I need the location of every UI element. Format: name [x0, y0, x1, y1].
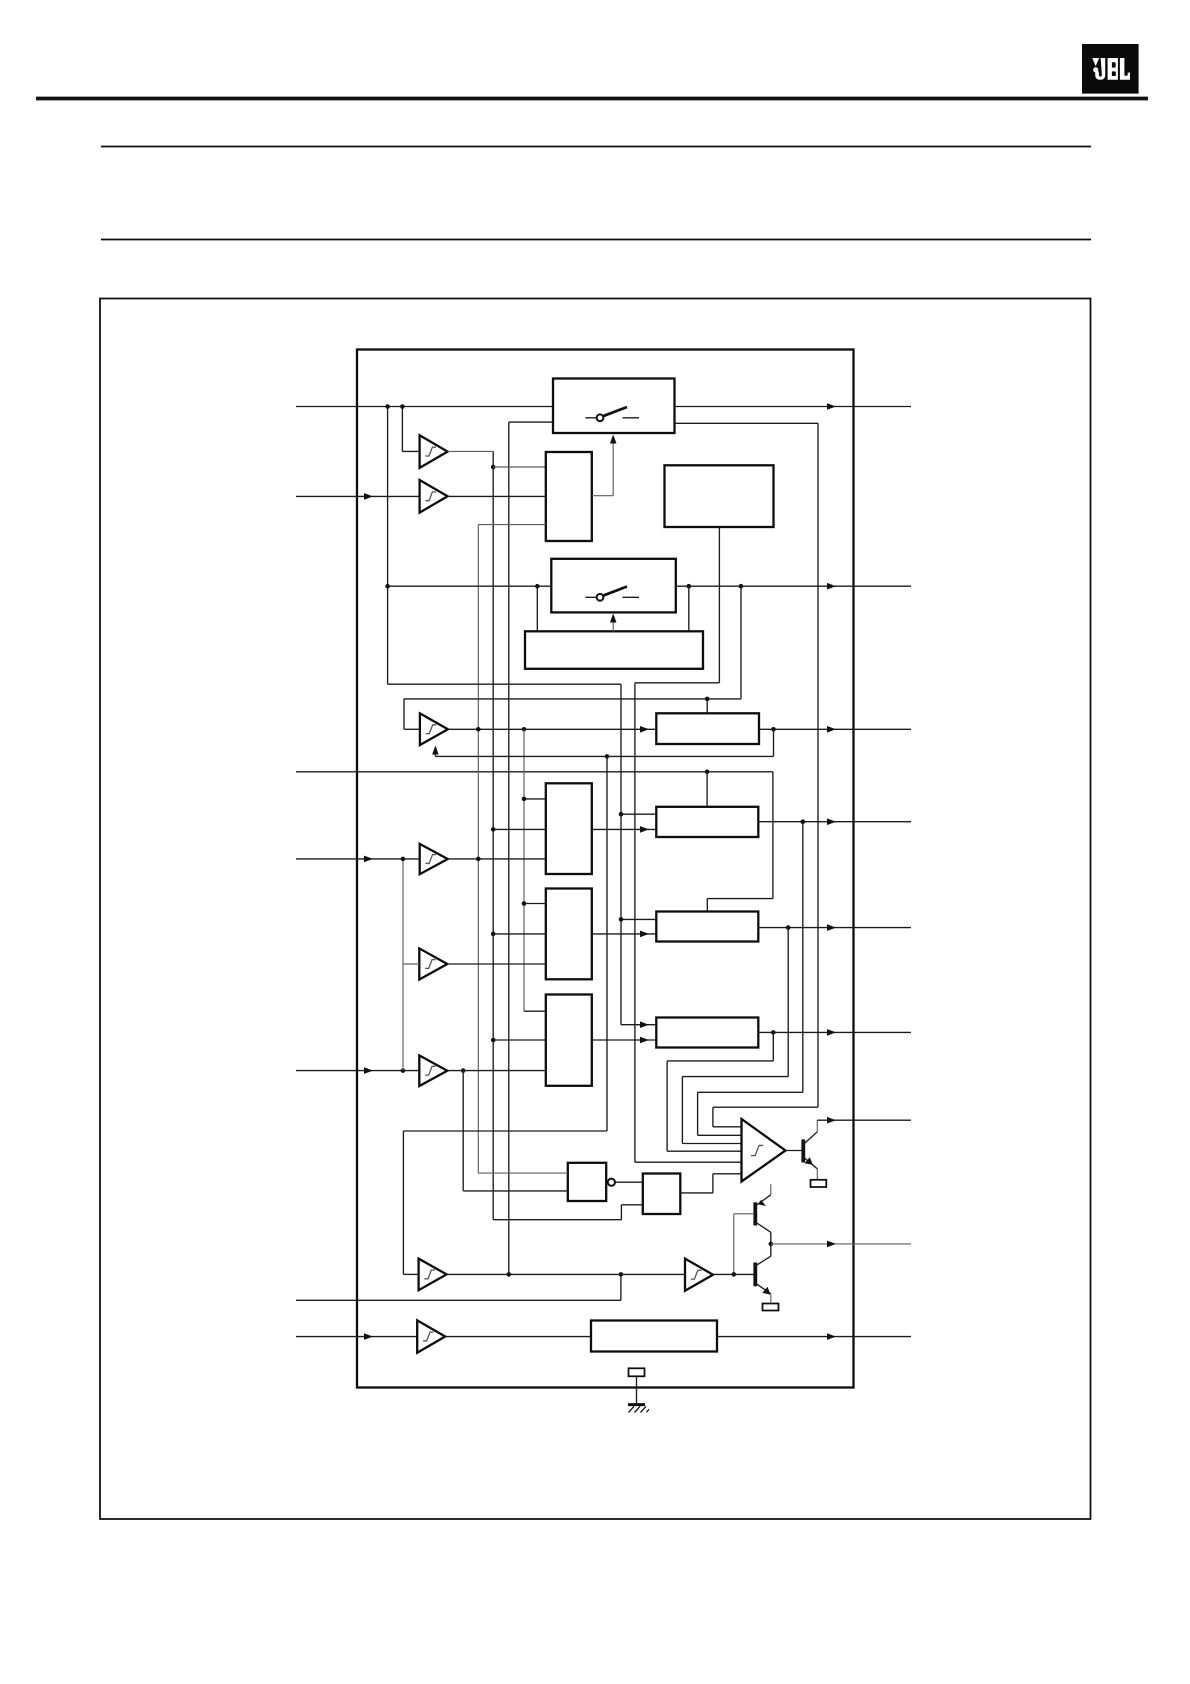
wire U8 output row — [447, 1273, 685, 1275]
wire Q3 emitter drop — [770, 1294, 772, 1304]
wire U12 out — [445, 1336, 591, 1338]
wire B1 out — [592, 933, 657, 935]
wire pin6 riser — [620, 1274, 622, 1300]
wire stair1 — [667, 1060, 773, 1062]
buffer U12 — [417, 1320, 445, 1352]
wire Q1 emitter drop — [816, 1169, 818, 1180]
buffer U10 — [685, 1259, 713, 1291]
wire R2 in — [621, 918, 656, 920]
gate G1 — [568, 1163, 606, 1201]
wire U6 in elbow — [403, 963, 419, 965]
wire G1 in1 — [478, 1172, 568, 1174]
wire input pin5 row — [296, 1070, 419, 1072]
buffer U8 — [419, 1259, 447, 1291]
wire U4 in elbow — [403, 699, 405, 729]
bus U4out — [523, 729, 525, 1011]
switch S1 symbol — [585, 407, 639, 421]
buffer U7 — [419, 1055, 447, 1086]
node R1 out — [801, 819, 806, 824]
block K1 — [656, 713, 759, 744]
buffer U5 — [420, 844, 448, 874]
resistor RE1 — [811, 1180, 827, 1187]
wire pin1 bus elbow — [388, 683, 621, 685]
transistor Q3 — [755, 1256, 771, 1294]
wire fb-mid elbow — [403, 1130, 607, 1132]
wire ctl drop left — [536, 586, 538, 631]
wire U2 output — [448, 450, 494, 452]
node U4out tap1 — [476, 727, 481, 732]
wire input pin3 row — [296, 771, 773, 773]
wire U10 out — [713, 1273, 754, 1275]
wire G1 in2 — [463, 1190, 568, 1192]
buffer U3 — [420, 480, 448, 513]
block A1 — [546, 783, 592, 874]
node S2-in tap — [385, 584, 390, 589]
wire U8 fb drop — [402, 1131, 404, 1274]
wire input pin7 row — [296, 1336, 417, 1338]
node C1 in2 — [491, 1038, 496, 1043]
buffer U2 — [420, 435, 448, 468]
wire W1 control to S2 — [612, 623, 614, 632]
wire R1 output row — [758, 821, 911, 823]
node pin6-join — [619, 1272, 624, 1277]
wire A1 in1 — [524, 798, 546, 800]
wire S2 fb drop — [740, 586, 742, 699]
bus control S1 — [508, 422, 510, 1274]
node pin5-branch — [401, 1068, 406, 1073]
wire U3 output — [448, 495, 546, 497]
gate G1 bubble — [608, 1179, 615, 1186]
wire R1 top stub — [706, 772, 708, 807]
node QQ out — [769, 1242, 774, 1247]
node Q3 base tap — [732, 1272, 737, 1277]
node R2 in — [619, 917, 624, 922]
wire long right bus — [817, 423, 819, 1107]
wire G2 in2 step — [493, 1219, 621, 1221]
wire T1 in1 — [493, 466, 546, 468]
block W2 — [591, 1321, 717, 1352]
node pin1-b — [400, 404, 405, 409]
bus U7out — [462, 1071, 464, 1191]
bus U2 out — [492, 451, 494, 1219]
wire stair3 — [698, 1091, 803, 1093]
wire stair4 — [713, 1106, 818, 1108]
bus R1out to comparator — [802, 822, 804, 1093]
block R3 — [656, 1018, 758, 1048]
wire R2 top stub — [706, 899, 708, 912]
wire R3 in arrow — [621, 1024, 656, 1026]
wire U2 input elbow — [401, 407, 403, 452]
wire B1 in1 — [524, 903, 546, 905]
wire input pin2 row — [296, 495, 420, 497]
wire C1 in2 — [493, 1039, 546, 1041]
figure frame — [100, 299, 1091, 1520]
analog switch S2 — [551, 559, 676, 613]
transistor Q2 — [755, 1195, 771, 1233]
wire stair5 ref — [635, 1161, 742, 1163]
wire input pin4 row — [296, 858, 420, 860]
title rule upper — [101, 146, 1091, 148]
wire C1 in1 — [524, 1010, 546, 1012]
node U5 out tap — [476, 857, 481, 862]
node S2 out a — [687, 584, 692, 589]
wire gnd drop — [636, 1376, 638, 1404]
wire K1 fb drop — [773, 729, 775, 756]
wire Q1 collector riser — [816, 1120, 818, 1132]
wire S1 aux out to comparator bus — [675, 422, 819, 424]
bus R3out to comparator — [772, 1032, 774, 1061]
wire ctl drop right — [688, 586, 690, 631]
wire Q2 emitter stub — [770, 1184, 772, 1195]
wire G1 out — [615, 1181, 643, 1183]
wire S1 output row — [675, 406, 912, 408]
wire Q2 base — [734, 1213, 755, 1215]
JBL logo — [1082, 44, 1139, 94]
wire R3 output row — [758, 1031, 911, 1033]
node U4out tap2 — [522, 727, 527, 732]
wire Q2 base riser — [733, 1214, 735, 1275]
bus from pin1 — [387, 407, 389, 685]
pin P-gnd — [629, 1368, 645, 1376]
node bus-s1 bottom — [507, 1272, 512, 1277]
ground — [628, 1405, 649, 1413]
wire K top stub — [706, 699, 708, 713]
node pin3-branch — [705, 770, 710, 775]
wire QQ output row — [771, 1243, 911, 1245]
block R2 — [656, 912, 758, 942]
buffer U6 — [419, 948, 447, 979]
node pin5-tap — [461, 1068, 466, 1073]
block REF1 — [665, 465, 774, 527]
wire stair2 — [682, 1076, 788, 1078]
wire T1 out to S1 control — [592, 495, 613, 497]
wire Q2-Q3 link — [770, 1232, 772, 1256]
wire S1 control stub — [509, 421, 553, 423]
wire input pin6 row — [296, 1299, 621, 1301]
wire pin3 drop — [772, 772, 774, 899]
IC outline U1 — [357, 350, 854, 1388]
bus fb-mid — [606, 756, 608, 1131]
wire T1 in3 — [478, 524, 546, 526]
wire U4 refresh arrow — [434, 755, 436, 757]
block T1 — [546, 452, 592, 541]
wire K1 output row — [759, 728, 911, 730]
bus R2out to comparator — [787, 928, 789, 1077]
comparator U9 — [742, 1119, 786, 1182]
node S2 out b — [739, 584, 744, 589]
block C1 — [546, 995, 592, 1086]
node R2 out — [786, 925, 791, 930]
node R1 in — [619, 812, 624, 817]
switch S2 symbol — [585, 587, 639, 601]
gate G2 — [643, 1174, 681, 1215]
wire G2 out step — [680, 1192, 713, 1194]
wire REF1 elbow — [635, 682, 720, 684]
node A1 in2 — [491, 827, 496, 832]
wire Q1 output row — [817, 1119, 911, 1121]
wire S2 output row — [676, 585, 911, 587]
wire U5 output — [448, 858, 546, 860]
resistor RE2 — [763, 1304, 779, 1311]
node K1 out — [771, 727, 776, 732]
node B1 in1 — [522, 901, 527, 906]
node fb-bus tap — [605, 754, 610, 759]
title rule lower — [101, 239, 1091, 241]
wire R1 in — [621, 813, 656, 815]
node K top tap — [705, 697, 710, 702]
wire C1 out — [592, 1039, 657, 1041]
wire K1 fb row — [435, 755, 773, 757]
node A1 in1 — [522, 797, 527, 802]
bus REF1 to comparator — [634, 683, 636, 1162]
bus to R-array — [620, 684, 622, 1024]
wire U4 fb top — [404, 698, 741, 700]
wire input pin1 row — [296, 406, 553, 408]
wire pin3 elbow — [707, 898, 773, 900]
node pin1-a — [385, 404, 390, 409]
wire S2 input row — [388, 585, 552, 587]
buffer U4 — [420, 713, 448, 745]
wire REF1 down — [718, 527, 720, 683]
wire U9 out — [786, 1150, 802, 1152]
transistor Q1 — [803, 1132, 817, 1169]
node R3 out — [771, 1030, 776, 1035]
wire U4 output row — [448, 728, 656, 730]
wire R2 output row — [758, 927, 911, 929]
wire U7 output — [448, 1070, 546, 1072]
wire B1 in2 — [493, 933, 546, 935]
analog switch S1 — [553, 379, 675, 434]
wire A1 out — [592, 828, 657, 830]
wire A1 in2 — [493, 828, 546, 830]
header rule thick — [36, 97, 1148, 101]
node S2 in ctl — [535, 584, 540, 589]
node U5-U6 tie — [401, 857, 406, 862]
node B1 in2 — [491, 932, 496, 937]
bus T1-in3 — [477, 525, 479, 1174]
node T1 in1 — [491, 465, 496, 470]
wire U6 output — [448, 963, 546, 965]
block W1 — [525, 631, 703, 669]
wire W2 output row — [717, 1336, 911, 1338]
block B1 — [546, 889, 592, 980]
block R1 — [656, 807, 758, 837]
